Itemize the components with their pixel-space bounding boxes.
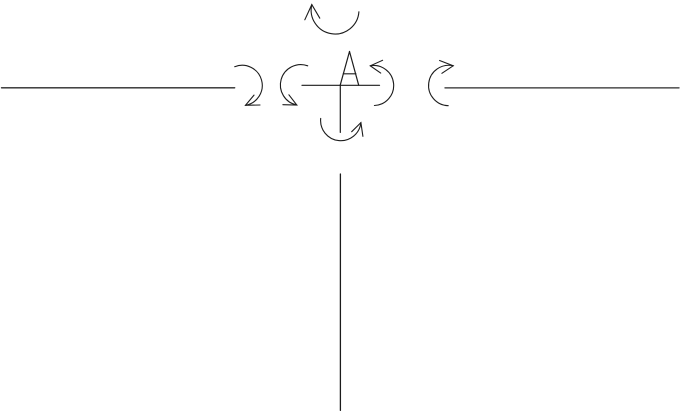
wire center horizontal bar xyxy=(302,84,380,86)
rotation arrow bottom arc xyxy=(321,118,361,140)
spindle top triangle left leg xyxy=(340,52,349,86)
spindle top triangle crossbar xyxy=(343,73,356,75)
rotation arrow top arrowhead xyxy=(305,5,320,20)
rotation arrow right-inner arrowhead xyxy=(370,60,382,73)
rotation arrow right-outer arrowhead xyxy=(440,61,454,74)
rotation arrow right-inner arc xyxy=(370,66,393,106)
rotation arrow left-outer arrowhead xyxy=(246,95,261,105)
spindle top triangle right leg xyxy=(350,52,359,86)
wire left horizontal xyxy=(2,87,235,89)
rotation arrow top arc xyxy=(311,5,359,34)
rotation arrow left-outer arc xyxy=(235,65,263,105)
rotation arrow left-inner arc xyxy=(280,65,307,105)
rotation arrow right-outer arc xyxy=(429,65,454,105)
rotation arrow bottom arrowhead xyxy=(352,123,363,137)
wire right horizontal xyxy=(445,87,679,89)
rotation arrow left-inner arrowhead xyxy=(283,95,297,105)
wire long vertical xyxy=(339,174,341,410)
wire short vertical stem xyxy=(339,85,341,132)
